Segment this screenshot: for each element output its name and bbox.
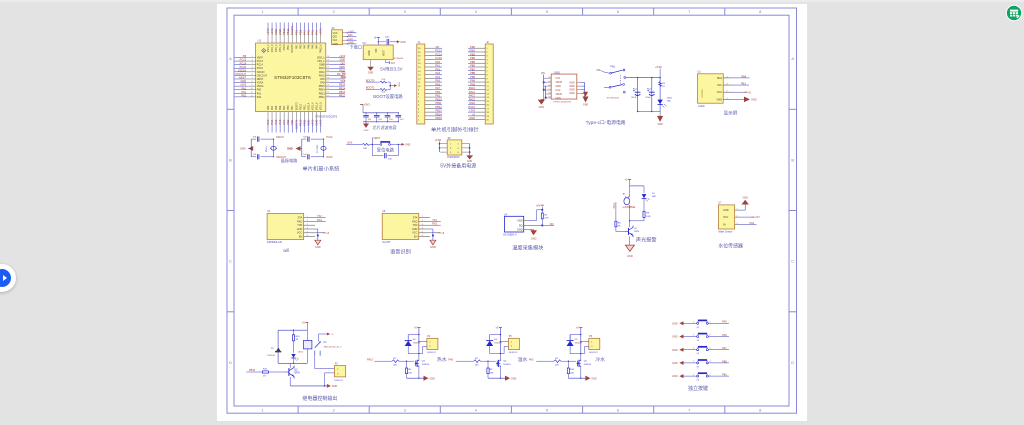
svg-text:GND: GND (556, 85, 562, 88)
svg-text:B: B (791, 157, 794, 162)
svg-text:PB10: PB10 (282, 28, 286, 35)
svg-text:PB10: PB10 (249, 369, 256, 372)
svg-text:OSCIN: OSCIN (238, 68, 246, 72)
svg-text:声光报警: 声光报警 (636, 235, 657, 243)
svg-text:GND: GND (569, 92, 575, 95)
svg-text:TX1: TX1 (342, 73, 347, 76)
svg-text:CLK: CLK (348, 38, 353, 41)
svg-text:3: 3 (737, 223, 738, 225)
svg-text:5: 5 (252, 70, 253, 72)
svg-text:NRST: NRST (374, 137, 381, 140)
svg-text:PC14: PC14 (257, 64, 264, 67)
svg-text:BOOT0: BOOT0 (290, 25, 294, 35)
svg-text:PA2: PA2 (241, 93, 246, 97)
svg-text:GND: GND (333, 43, 339, 46)
svg-text:VBUS: VBUS (556, 93, 563, 96)
svg-text:D: D (791, 360, 794, 365)
svg-text:B: B (229, 157, 232, 162)
crystal circuit Y2 32.768K (287, 136, 333, 159)
svg-text:+3V3: +3V3 (339, 54, 346, 58)
svg-text:SRD-05VDC-SL-C: SRD-05VDC-SL-C (324, 346, 343, 348)
svg-text:PC15: PC15 (240, 65, 247, 69)
svg-text:PA4: PA4 (270, 119, 274, 124)
svg-text:GND: GND (278, 29, 282, 35)
svg-text:GND: GND (743, 197, 749, 200)
svg-text:PB5: PB5 (470, 60, 475, 64)
svg-text:VB: VB (435, 45, 439, 49)
svg-text:GND: GND (364, 130, 369, 132)
Type-C connector USB1 (538, 71, 589, 108)
svg-text:GND: GND (591, 377, 597, 380)
title 显示屏 (723, 110, 737, 116)
svg-text:PA3: PA3 (529, 358, 534, 361)
svg-text:NRST: NRST (239, 76, 246, 80)
svg-text:RX2: RX2 (317, 219, 322, 222)
svg-text:继电器控制输出: 继电器控制输出 (302, 395, 337, 402)
svg-text:PB1: PB1 (295, 44, 298, 49)
svg-text:PA4: PA4 (315, 44, 318, 49)
svg-text:GND: GND (569, 89, 575, 92)
svg-text:22: 22 (327, 63, 329, 65)
svg-text:GND: GND (657, 123, 663, 126)
svg-text:2: 2 (422, 220, 423, 222)
svg-text:PB13: PB13 (319, 92, 326, 95)
svg-text:PB2: PB2 (470, 45, 475, 49)
svg-text:4: 4 (307, 228, 308, 230)
pin header J1 (417, 41, 443, 124)
svg-text:PB4: PB4 (742, 75, 747, 78)
svg-text:晶振电路: 晶振电路 (281, 157, 299, 164)
svg-text:OSCIN: OSCIN (276, 136, 284, 139)
svg-text:PB0: PB0 (299, 44, 302, 49)
svg-text:OSCOUT: OSCOUT (257, 74, 268, 77)
svg-text:2: 2 (252, 59, 253, 61)
svg-text:GND: GND (469, 101, 475, 105)
svg-text:PB12: PB12 (319, 96, 326, 99)
svg-text:VSS_4: VSS_4 (307, 102, 310, 110)
svg-text:2: 2 (737, 216, 738, 218)
svg-text:PB8: PB8 (470, 71, 475, 75)
svg-text:PC14: PC14 (435, 52, 442, 56)
svg-text:GND: GND (430, 377, 436, 380)
svg-text:单片机最小系统: 单片机最小系统 (302, 165, 340, 173)
svg-text:PB1: PB1 (435, 94, 440, 98)
svg-text:GND: GND (539, 106, 545, 109)
svg-text:PA1: PA1 (435, 64, 440, 68)
svg-text:+3V3: +3V3 (319, 28, 323, 35)
svg-text:PA4: PA4 (271, 105, 274, 110)
svg-text:PA6: PA6 (307, 44, 310, 49)
svg-text:VCC: VCC (723, 216, 728, 219)
button S2 row (672, 320, 729, 328)
svg-text:GND: GND (369, 50, 371, 55)
title 水位传感器 (718, 243, 743, 250)
svg-text:A9: A9 (548, 92, 550, 95)
sound-light alarm B1 D1 Q1 (613, 178, 657, 258)
svg-text:+C: +C (331, 334, 334, 336)
power switch PW1 KF1208-403 (596, 66, 625, 100)
svg-text:PB0: PB0 (287, 105, 290, 110)
svg-text:GND: GND (240, 147, 246, 151)
svg-text:VOUT: VOUT (384, 49, 386, 56)
svg-text:20: 20 (327, 70, 329, 72)
svg-text:DS 18B20-U: DS 18B20-U (503, 233, 517, 236)
svg-text:5: 5 (422, 231, 423, 233)
svg-text:A: A (229, 56, 232, 61)
svg-text:PC14: PC14 (240, 61, 247, 65)
svg-text:DIO: DIO (348, 34, 353, 37)
svg-text:PB14: PB14 (339, 86, 346, 90)
svg-text:PA2: PA2 (435, 67, 440, 71)
svg-text:PB10: PB10 (435, 97, 442, 101)
svg-text:VDD: VDD (517, 219, 522, 222)
svg-text:17: 17 (327, 81, 329, 83)
svg-text:USB1: USB1 (554, 71, 561, 74)
svg-text:LED: LED (652, 196, 657, 198)
svg-text:GND: GND (556, 97, 562, 100)
svg-text:语音识别: 语音识别 (390, 247, 411, 255)
svg-text:DQ: DQ (550, 223, 554, 226)
svg-text:GND: GND (368, 72, 374, 75)
svg-text:PB10: PB10 (283, 44, 286, 51)
svg-text:CC1: CC1 (556, 77, 561, 80)
svg-text:EN: EN (299, 236, 303, 239)
svg-text:21: 21 (327, 67, 329, 69)
svg-text:STM32F103C8T6: STM32F103C8T6 (274, 75, 311, 80)
svg-text:N-MOS: N-MOS (584, 364, 592, 366)
svg-text:13: 13 (327, 95, 329, 97)
svg-text:PB1: PB1 (294, 29, 298, 35)
svg-text:GND: GND (315, 246, 321, 249)
svg-text:PA6: PA6 (722, 334, 727, 337)
svg-text:8: 8 (252, 81, 253, 83)
pin header J2 (468, 41, 493, 124)
svg-text:VBUS: VBUS (556, 81, 563, 84)
svg-text:PA2: PA2 (257, 96, 262, 99)
svg-text:32.768K: 32.768K (317, 144, 319, 153)
svg-text:HDR1X2: HDR1X2 (509, 352, 518, 354)
svg-text:PA11: PA11 (319, 71, 325, 74)
left round nav button (0, 264, 16, 292)
filter caps EC1 EC2 R1 LED1 (626, 65, 673, 126)
svg-text:TX3: TX3 (432, 219, 437, 222)
svg-text:PB15: PB15 (435, 116, 442, 120)
temperature sensor U4 DS18B20 (503, 203, 554, 240)
cold water MOS driver 冷水 (529, 326, 605, 381)
svg-text:芯片滤波电容: 芯片滤波电容 (373, 124, 397, 130)
svg-text:+3V3: +3V3 (348, 30, 355, 33)
svg-text:下载口: 下载口 (350, 43, 363, 50)
svg-text:7: 7 (252, 77, 253, 79)
svg-text:PB0: PB0 (286, 119, 290, 125)
svg-text:GND: GND (751, 98, 757, 101)
svg-text:A1: A1 (548, 76, 550, 79)
svg-text:PA7: PA7 (435, 86, 440, 90)
svg-text:RX1: RX1 (342, 76, 347, 79)
svg-text:PA11: PA11 (613, 202, 616, 208)
sheet border frame (227, 8, 797, 413)
svg-text:PA6: PA6 (435, 82, 440, 86)
svg-text:18: 18 (327, 77, 329, 79)
svg-text:A4: A4 (548, 84, 550, 87)
svg-text:PA9: PA9 (320, 78, 325, 81)
svg-text:VBAT: VBAT (257, 57, 264, 60)
svg-text:温水: 温水 (518, 356, 528, 363)
svg-text:PB1: PB1 (291, 105, 294, 110)
svg-text:PA6: PA6 (278, 119, 282, 124)
svg-text:PA0: PA0 (257, 89, 262, 92)
svg-text:3V3: 3V3 (391, 63, 396, 65)
svg-text:PA7: PA7 (303, 44, 306, 49)
svg-text:PB13: PB13 (339, 90, 346, 94)
svg-text:PB14: PB14 (435, 112, 442, 116)
svg-text:10K: 10K (570, 372, 574, 374)
chip filter capacitors (360, 103, 404, 132)
svg-text:PB1: PB1 (290, 119, 294, 125)
svg-text:ESP8266-12F: ESP8266-12F (267, 241, 283, 244)
svg-text:C: C (229, 259, 232, 264)
svg-text:PA7: PA7 (722, 347, 727, 350)
svg-text:NRST: NRST (257, 78, 264, 81)
svg-text:CC2: CC2 (556, 89, 561, 92)
svg-text:SCL: SCL (717, 84, 722, 87)
svg-text:GND: GND (314, 120, 318, 126)
svg-text:VCC: VCC (412, 232, 417, 235)
svg-text:PB0: PB0 (298, 29, 302, 35)
svg-text:GND: GND (583, 104, 589, 107)
svg-text:GND: GND (469, 116, 475, 120)
svg-text:NPN: NPN (634, 231, 639, 233)
svg-text:GND: GND (517, 228, 523, 231)
svg-text:PA15: PA15 (367, 358, 374, 361)
svg-text:PC13: PC13 (435, 49, 442, 53)
svg-text:HDR1X2: HDR1X2 (589, 352, 598, 354)
svg-text:Type-c口-电源电路: Type-c口-电源电路 (586, 119, 626, 126)
svg-text:PA7: PA7 (282, 119, 286, 124)
svg-text:PA5: PA5 (274, 119, 278, 124)
svg-text:GND: GND (306, 120, 310, 126)
svg-text:N-MOS: N-MOS (422, 364, 430, 366)
svg-text:TXD: TXD (412, 224, 417, 227)
svg-text:KF1208-403: KF1208-403 (607, 98, 620, 100)
svg-text:4.7K: 4.7K (544, 218, 549, 220)
svg-text:10K: 10K (490, 372, 494, 374)
svg-text:GND: GND (723, 209, 729, 212)
svg-text:GND: GND (672, 322, 678, 325)
svg-text:VCC: VCC (297, 232, 302, 235)
svg-text:GND: GND (274, 29, 278, 35)
svg-text:PB12: PB12 (435, 105, 442, 109)
svg-text:PA6: PA6 (279, 105, 282, 110)
svg-text:XB: XB (243, 54, 247, 58)
svg-text:6: 6 (252, 74, 253, 76)
svg-text:PA12: PA12 (469, 94, 476, 98)
svg-text:15: 15 (327, 88, 329, 90)
svg-text:GND: GND (398, 82, 400, 87)
svg-text:DIO: DIO (341, 61, 346, 65)
microcontroller U1 STM32F103C8T6 (235, 23, 347, 133)
BOOT config resistors (366, 79, 403, 100)
svg-text:GND: GND (672, 336, 678, 339)
svg-text:10K: 10K (381, 79, 385, 81)
svg-text:PA5: PA5 (435, 79, 440, 83)
svg-text:PC13: PC13 (327, 156, 334, 159)
warm water MOS driver 温水 (449, 326, 528, 381)
title 继电器控制输出 (302, 395, 337, 402)
svg-text:VIN: VIN (541, 72, 545, 75)
svg-text:STM32F103C8T6: STM32F103C8T6 (315, 115, 338, 119)
svg-text:HDR1X2: HDR1X2 (334, 380, 343, 382)
svg-text:B1: B1 (548, 89, 550, 91)
svg-text:复位电路: 复位电路 (377, 146, 395, 153)
svg-text:热水: 热水 (437, 356, 447, 363)
svg-text:TX2: TX2 (317, 215, 322, 218)
svg-text:7pF: 7pF (253, 154, 257, 156)
svg-text:EN: EN (414, 236, 418, 239)
svg-text:VSS_2: VSS_2 (275, 44, 278, 52)
svg-text:GND: GND (511, 377, 517, 380)
svg-text:BOOT设置电路: BOOT设置电路 (373, 93, 403, 100)
svg-text:C: C (791, 259, 794, 264)
svg-text:GND: GND (467, 160, 473, 163)
svg-text:PB11: PB11 (302, 119, 306, 126)
svg-text:1N4007: 1N4007 (494, 342, 502, 344)
svg-text:VSSA: VSSA (257, 82, 264, 85)
svg-text:A: A (791, 56, 794, 61)
svg-text:PA4: PA4 (750, 222, 755, 225)
title 单片机引脚外引排针 (431, 126, 479, 134)
svg-text:+5V: +5V (755, 215, 760, 219)
white schematic page (217, 4, 807, 421)
svg-text:GND: GND (332, 385, 338, 388)
svg-text:RXD: RXD (297, 220, 302, 223)
svg-text:PA6: PA6 (449, 358, 454, 361)
svg-text:GND: GND (627, 255, 633, 258)
svg-text:+3V3: +3V3 (469, 109, 476, 113)
reset circuit S1 (346, 137, 410, 161)
button S3 row (672, 334, 729, 342)
svg-text:10K: 10K (408, 372, 412, 374)
svg-text:SCX6206: SCX6206 (394, 58, 404, 60)
svg-text:PC14: PC14 (327, 136, 334, 139)
svg-text:7pF: 7pF (303, 136, 307, 138)
title 单片机最小系统 (302, 165, 340, 173)
svg-text:PB14: PB14 (319, 89, 326, 92)
svg-text:LED2: LED2 (298, 351, 304, 353)
svg-text:IN: IN (723, 223, 726, 226)
svg-text:GND: GND (469, 49, 475, 53)
svg-text:OSCOUT: OSCOUT (235, 72, 247, 76)
svg-text:RXD: RXD (412, 220, 417, 223)
water level sensor U7 (718, 197, 760, 234)
svg-text:VIN: VIN (596, 69, 600, 72)
svg-text:PA0: PA0 (241, 86, 246, 90)
svg-text:24: 24 (327, 56, 329, 58)
svg-text:VSS_5: VSS_5 (315, 102, 318, 110)
svg-text:1: 1 (307, 216, 308, 218)
svg-text:SU-03T: SU-03T (382, 241, 391, 244)
svg-text:CLK: CLK (333, 39, 338, 42)
svg-text:23: 23 (327, 59, 329, 61)
svg-text:16: 16 (327, 85, 329, 87)
svg-text:D: D (229, 360, 232, 365)
svg-text:PB11: PB11 (435, 101, 442, 105)
svg-text:PB15: PB15 (339, 83, 346, 87)
svg-text:PA0: PA0 (435, 60, 440, 64)
green BOM icon (top right) (1002, 1, 1024, 25)
svg-text:水位传感器: 水位传感器 (718, 243, 743, 250)
svg-text:6: 6 (307, 235, 308, 237)
svg-text:BOOT1: BOOT1 (294, 119, 298, 129)
svg-text:4: 4 (252, 67, 253, 69)
svg-text:PA15: PA15 (469, 97, 476, 101)
svg-text:PB9: PB9 (470, 75, 475, 79)
svg-text:U1: U1 (258, 39, 262, 43)
svg-text:BOOT0: BOOT0 (291, 44, 294, 53)
title Type-c口-电源电路 (586, 119, 626, 126)
svg-text:PA8: PA8 (320, 82, 325, 85)
svg-text:22uF: 22uF (645, 97, 651, 99)
zone labels (229, 9, 794, 413)
svg-text:3: 3 (422, 224, 423, 226)
wifi module U3 ESP8266-12F (267, 210, 330, 253)
svg-text:PB10: PB10 (298, 119, 302, 126)
svg-text:GND: GND (672, 375, 678, 378)
svg-text:LED1: LED1 (667, 98, 673, 100)
svg-text:3: 3 (252, 63, 253, 65)
svg-text:PC13: PC13 (240, 58, 247, 62)
svg-text:PA10: PA10 (469, 86, 476, 90)
crystal circuit Y1 8MHz (240, 136, 298, 164)
svg-text:温度采集模块: 温度采集模块 (512, 244, 544, 252)
svg-text:PB11: PB11 (287, 44, 290, 50)
svg-text:PA10: PA10 (319, 74, 325, 77)
svg-text:OLED: OLED (698, 105, 705, 108)
svg-text:GND: GND (672, 362, 678, 365)
svg-text:Water Sensor: Water Sensor (718, 231, 732, 234)
svg-text:PA1: PA1 (241, 90, 246, 94)
svg-text:SDA: SDA (717, 77, 722, 80)
svg-text:12: 12 (251, 95, 253, 97)
svg-text:19: 19 (327, 74, 329, 76)
svg-text:PB12: PB12 (339, 93, 346, 97)
svg-text:1N4148: 1N4148 (267, 355, 275, 357)
svg-text:GND: GND (405, 144, 411, 147)
svg-text:PA3: PA3 (435, 71, 440, 75)
svg-text:22uF: 22uF (631, 97, 637, 99)
svg-text:+3V3: +3V3 (266, 28, 270, 35)
svg-text:PC15: PC15 (435, 56, 442, 60)
svg-text:PA8: PA8 (341, 79, 346, 83)
svg-text:PB3: PB3 (741, 83, 746, 86)
svg-text:PC13: PC13 (257, 60, 264, 63)
svg-text:PB1: PB1 (722, 374, 727, 377)
svg-text:PA5: PA5 (311, 44, 314, 49)
svg-text:PA3: PA3 (267, 105, 270, 110)
svg-text:VSS_3: VSS_3 (279, 44, 282, 52)
svg-text:SWC: SWC (339, 65, 345, 69)
svg-text:STA: STA (298, 217, 303, 220)
svg-text:10: 10 (251, 88, 253, 90)
svg-text:PB11: PB11 (303, 104, 306, 110)
svg-text:PB3: PB3 (470, 52, 475, 56)
svg-text:PWCLK: PWCLK (320, 44, 323, 53)
svg-text:GND: GND (569, 85, 575, 88)
title 温度采集模块 (512, 244, 544, 252)
svg-text:N-MOS: N-MOS (503, 364, 511, 366)
svg-text:PA1: PA1 (257, 92, 262, 95)
svg-text:GND: GND (569, 81, 575, 84)
